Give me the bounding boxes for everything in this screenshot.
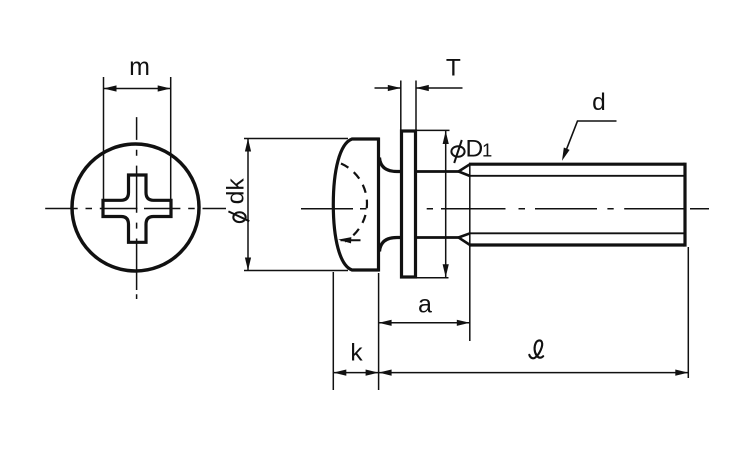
thread root top line bbox=[469, 175, 685, 177]
neck fillet top bbox=[380, 158, 403, 172]
head outline circle (front view) bbox=[72, 144, 199, 271]
front view: horizontal centerline bbox=[45, 208, 226, 210]
thread root bottom line bbox=[469, 232, 685, 234]
dimension dk: bottom arrowhead bbox=[245, 258, 251, 271]
thread runout fork top bbox=[459, 164, 471, 176]
svg-text:T: T bbox=[446, 55, 461, 82]
dimension D1: bottom extension line bbox=[416, 277, 449, 279]
svg-text:dk: dk bbox=[223, 178, 250, 205]
dimension T: left extension line bbox=[400, 81, 402, 131]
label l (script ell) bbox=[529, 340, 543, 358]
dimension D1: top arrowhead bbox=[443, 131, 449, 144]
svg-text:m: m bbox=[129, 53, 150, 81]
dimension D1: bottom arrowhead bbox=[443, 264, 449, 277]
svg-text:1: 1 bbox=[482, 140, 492, 161]
dimension dk: top arrowhead bbox=[245, 139, 251, 152]
dimension m: dimension line bbox=[104, 88, 171, 90]
dimension l: right arrowhead bbox=[675, 370, 688, 376]
svg-text:D: D bbox=[466, 136, 484, 163]
svg-text:k: k bbox=[350, 340, 363, 367]
recess pointer arrowhead bbox=[338, 237, 351, 244]
dimension T: left arrowhead bbox=[388, 85, 401, 91]
leader line for d bbox=[564, 121, 617, 157]
label phi-dk (rotated) bbox=[223, 178, 250, 223]
dimension m: left arrowhead bbox=[104, 85, 117, 91]
dimension k: left extension line (dome front) bbox=[332, 272, 334, 390]
dimension dk: dimension line bbox=[247, 139, 249, 271]
dimension m: left extension line bbox=[103, 77, 105, 200]
dimension dk: bottom extension line bbox=[244, 270, 348, 272]
dimension a: left extension line (head face) bbox=[378, 273, 380, 390]
dimension a: dimension line bbox=[379, 322, 470, 324]
shank bottom line bbox=[416, 236, 459, 239]
dimension m: right extension line bbox=[170, 77, 172, 200]
screw head (side view) outline bbox=[333, 139, 379, 270]
side view: centerline bbox=[301, 208, 709, 210]
dimension D1: top extension line bbox=[416, 129, 450, 131]
neck fillet bottom bbox=[380, 238, 403, 252]
screw head bearing face bbox=[377, 138, 380, 272]
dimension a: right extension line (thread start) bbox=[469, 165, 471, 341]
screw end face bbox=[683, 163, 686, 247]
dimension k: dimension line bbox=[333, 372, 378, 374]
dimension T: right extension line bbox=[415, 81, 417, 131]
hidden recess arc (dashed) bbox=[341, 164, 367, 242]
dimension T: left dimension line bbox=[375, 87, 401, 89]
dimension a: right arrowhead bbox=[457, 320, 470, 326]
front view: vertical centerline bbox=[136, 117, 138, 299]
shank top line bbox=[416, 170, 459, 173]
dimension l: left arrowhead bbox=[379, 370, 392, 376]
phillips cross recess outline bbox=[103, 175, 171, 242]
thread runout fork bottom bbox=[459, 233, 471, 245]
dimension D1: dimension line bbox=[445, 131, 447, 277]
dimension T: right dimension line bbox=[416, 87, 463, 89]
dimension dk: top extension line bbox=[244, 138, 348, 140]
label phi-D1 bbox=[451, 136, 492, 164]
thread crest top line bbox=[469, 163, 685, 166]
dimension l: dimension line bbox=[379, 372, 689, 374]
dimension m: right arrowhead bbox=[158, 85, 171, 91]
dimension T: right arrowhead bbox=[416, 85, 429, 91]
leader arrowhead for d bbox=[559, 148, 569, 162]
svg-text:d: d bbox=[592, 89, 606, 116]
recess pointer line bbox=[341, 239, 361, 241]
spring/plain washer bbox=[402, 131, 416, 277]
thread crest bottom line bbox=[469, 243, 685, 246]
dimension a: left arrowhead bbox=[379, 320, 392, 326]
dimension l: right extension line (rod end) bbox=[687, 247, 689, 378]
dimension k: left arrowhead bbox=[333, 370, 346, 376]
dimension k: right arrowhead bbox=[366, 370, 379, 376]
svg-text:a: a bbox=[418, 291, 432, 319]
